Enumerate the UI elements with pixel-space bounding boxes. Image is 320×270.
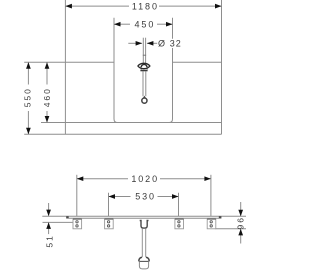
svg-text:460: 460 (42, 87, 52, 107)
svg-text:450: 450 (135, 19, 156, 29)
svg-text:Ø 32: Ø 32 (158, 38, 182, 48)
svg-text:1020: 1020 (131, 174, 159, 184)
svg-text:96: 96 (236, 216, 246, 229)
svg-text:530: 530 (135, 192, 156, 202)
svg-text:1180: 1180 (132, 1, 159, 11)
svg-text:51: 51 (44, 234, 54, 247)
svg-text:550: 550 (23, 87, 33, 107)
